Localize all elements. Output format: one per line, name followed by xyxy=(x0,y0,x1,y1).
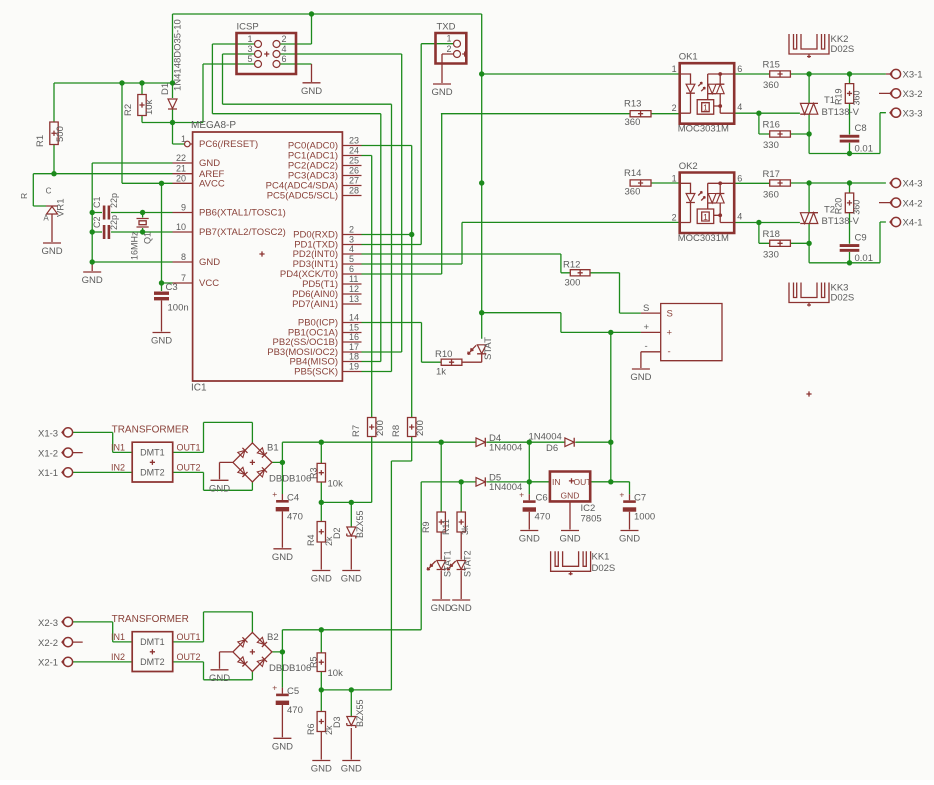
svg-text:11: 11 xyxy=(349,274,358,284)
svg-text:IN1: IN1 xyxy=(111,442,125,452)
svg-text:330: 330 xyxy=(763,249,779,260)
svg-text:C7: C7 xyxy=(634,493,646,504)
svg-text:1: 1 xyxy=(703,103,708,113)
svg-text:2: 2 xyxy=(282,34,287,44)
svg-text:ICSP: ICSP xyxy=(237,22,259,33)
svg-text:C3: C3 xyxy=(166,282,178,293)
svg-text:+: + xyxy=(644,322,650,333)
svg-text:PC6(/RESET): PC6(/RESET) xyxy=(199,139,258,150)
svg-text:12: 12 xyxy=(349,284,359,294)
svg-text:R: R xyxy=(19,193,29,199)
svg-text:+: + xyxy=(519,489,524,499)
svg-text:8: 8 xyxy=(181,252,186,262)
svg-text:1: 1 xyxy=(446,34,451,44)
svg-text:TRANSFORMER: TRANSFORMER xyxy=(112,614,189,625)
svg-text:IC2: IC2 xyxy=(581,503,596,514)
svg-text:17: 17 xyxy=(349,342,359,352)
svg-text:10k: 10k xyxy=(328,479,344,490)
svg-text:GND: GND xyxy=(341,574,362,585)
svg-text:R5: R5 xyxy=(309,656,319,668)
svg-text:GND: GND xyxy=(301,86,322,97)
svg-text:DMT2: DMT2 xyxy=(140,657,165,667)
svg-text:10: 10 xyxy=(176,222,186,232)
svg-text:STAT: STAT xyxy=(483,337,494,360)
svg-text:1N4004: 1N4004 xyxy=(489,482,522,493)
svg-text:C1: C1 xyxy=(92,196,102,208)
svg-text:R3: R3 xyxy=(309,467,319,479)
svg-text:100n: 100n xyxy=(168,303,189,314)
svg-text:PB6(XTAL1/TOSC1): PB6(XTAL1/TOSC1) xyxy=(199,208,286,219)
svg-text:7: 7 xyxy=(181,273,186,283)
svg-text:BT138-V: BT138-V xyxy=(822,216,860,227)
svg-text:R1: R1 xyxy=(35,135,46,147)
svg-text:1: 1 xyxy=(672,64,677,74)
svg-text:GND: GND xyxy=(559,534,580,545)
svg-text:R15: R15 xyxy=(763,60,780,71)
svg-text:C: C xyxy=(46,187,52,196)
svg-text:360: 360 xyxy=(625,187,641,198)
svg-text:16: 16 xyxy=(349,332,359,342)
svg-text:OUT: OUT xyxy=(574,477,592,487)
svg-text:24: 24 xyxy=(349,146,359,156)
svg-text:GND: GND xyxy=(431,603,452,614)
svg-text:Q1: Q1 xyxy=(143,232,153,244)
svg-text:360: 360 xyxy=(852,200,862,215)
svg-text:1k: 1k xyxy=(436,367,446,378)
svg-text:GND: GND xyxy=(199,257,220,268)
svg-text:2: 2 xyxy=(349,225,354,235)
svg-text:R2: R2 xyxy=(123,104,134,116)
svg-text:IN1: IN1 xyxy=(111,632,125,642)
svg-text:6: 6 xyxy=(737,173,742,183)
svg-text:2: 2 xyxy=(446,44,451,54)
svg-text:+: + xyxy=(619,489,624,499)
svg-text:C9: C9 xyxy=(855,232,867,243)
svg-text:X2-1: X2-1 xyxy=(38,658,58,669)
svg-text:500: 500 xyxy=(55,126,66,142)
svg-text:16MHz: 16MHz xyxy=(130,231,140,260)
svg-text:IN2: IN2 xyxy=(111,652,125,662)
svg-text:18: 18 xyxy=(349,352,359,362)
svg-text:R18: R18 xyxy=(763,229,780,240)
svg-text:1: 1 xyxy=(181,134,186,144)
svg-text:GND: GND xyxy=(431,87,452,98)
svg-text:+: + xyxy=(272,489,277,499)
svg-text:200: 200 xyxy=(375,420,386,436)
svg-text:D1: D1 xyxy=(160,83,171,95)
svg-text:470: 470 xyxy=(287,512,303,523)
svg-text:R9: R9 xyxy=(421,521,431,533)
svg-text:6: 6 xyxy=(282,54,287,64)
svg-text:GND: GND xyxy=(341,764,362,775)
svg-text:D02S: D02S xyxy=(831,293,855,304)
svg-text:DMT1: DMT1 xyxy=(140,637,165,647)
svg-text:GND: GND xyxy=(151,336,172,347)
svg-text:VCC: VCC xyxy=(199,278,219,289)
svg-text:1: 1 xyxy=(703,212,708,222)
svg-text:4: 4 xyxy=(737,212,742,222)
svg-text:X1-1: X1-1 xyxy=(38,468,58,479)
svg-text:X1-3: X1-3 xyxy=(38,428,58,439)
svg-text:360: 360 xyxy=(852,90,862,105)
svg-text:0.01: 0.01 xyxy=(855,253,874,264)
svg-text:T1: T1 xyxy=(824,95,835,106)
svg-text:OUT2: OUT2 xyxy=(177,652,201,662)
svg-text:D6: D6 xyxy=(546,443,558,454)
svg-text:22p: 22p xyxy=(109,193,119,208)
svg-text:MOC3031M: MOC3031M xyxy=(678,233,729,244)
svg-text:360: 360 xyxy=(763,80,779,91)
svg-text:10k: 10k xyxy=(328,668,344,679)
svg-text:X4-1: X4-1 xyxy=(903,218,923,229)
svg-text:R11: R11 xyxy=(441,519,451,535)
svg-text:KK1: KK1 xyxy=(592,552,610,563)
svg-text:IN: IN xyxy=(552,477,561,487)
svg-text:22p: 22p xyxy=(109,215,119,230)
svg-text:GND: GND xyxy=(199,158,220,169)
svg-text:GND: GND xyxy=(630,372,651,383)
svg-text:23: 23 xyxy=(349,136,359,146)
svg-text:1N4148DO35-10: 1N4148DO35-10 xyxy=(173,19,184,91)
svg-text:14: 14 xyxy=(349,313,359,323)
svg-text:C2: C2 xyxy=(92,216,102,228)
svg-text:R10: R10 xyxy=(435,349,452,360)
svg-text:C6: C6 xyxy=(536,493,548,504)
svg-text:A: A xyxy=(43,214,49,223)
svg-text:GND: GND xyxy=(519,534,540,545)
svg-text:MOC3031M: MOC3031M xyxy=(678,124,729,135)
svg-text:26: 26 xyxy=(349,166,359,176)
svg-text:IN2: IN2 xyxy=(111,462,125,472)
svg-text:3: 3 xyxy=(349,235,354,245)
svg-text:BZX55: BZX55 xyxy=(355,510,365,538)
svg-text:GND: GND xyxy=(209,483,230,494)
svg-text:3k: 3k xyxy=(460,525,470,535)
svg-text:28: 28 xyxy=(349,186,359,196)
svg-text:+: + xyxy=(667,328,673,339)
svg-text:GND: GND xyxy=(82,275,103,286)
svg-text:D02S: D02S xyxy=(592,563,616,574)
svg-text:BT138-V: BT138-V xyxy=(822,107,860,118)
svg-text:GND: GND xyxy=(311,574,332,585)
svg-text:GND: GND xyxy=(561,491,580,501)
svg-text:13: 13 xyxy=(349,294,359,304)
svg-text:R13: R13 xyxy=(624,99,641,110)
svg-text:X4-2: X4-2 xyxy=(903,198,923,209)
svg-text:X3-3: X3-3 xyxy=(903,108,923,119)
svg-text:-: - xyxy=(668,347,671,358)
svg-text:5: 5 xyxy=(349,254,354,264)
svg-text:GND: GND xyxy=(451,603,472,614)
svg-text:S: S xyxy=(643,303,649,314)
svg-text:GND: GND xyxy=(41,246,62,257)
svg-text:470: 470 xyxy=(287,705,303,716)
svg-text:R16: R16 xyxy=(763,120,780,131)
svg-text:AVCC: AVCC xyxy=(199,179,225,190)
svg-text:B2: B2 xyxy=(267,632,279,643)
svg-text:6: 6 xyxy=(737,64,742,74)
svg-text:TXD: TXD xyxy=(437,22,456,33)
svg-text:-: - xyxy=(645,341,648,352)
svg-text:22: 22 xyxy=(176,153,186,163)
svg-text:200: 200 xyxy=(415,420,426,436)
svg-text:6: 6 xyxy=(349,264,354,274)
svg-text:GND: GND xyxy=(272,741,293,752)
svg-text:R7: R7 xyxy=(351,425,362,437)
svg-text:5: 5 xyxy=(247,54,252,64)
svg-text:21: 21 xyxy=(176,164,186,174)
svg-text:2: 2 xyxy=(672,103,677,113)
svg-text:19: 19 xyxy=(349,362,359,372)
svg-text:R4: R4 xyxy=(306,534,316,546)
svg-text:1: 1 xyxy=(247,34,252,44)
svg-text:B1: B1 xyxy=(267,443,279,454)
svg-text:D2: D2 xyxy=(332,527,342,539)
svg-text:T2: T2 xyxy=(824,204,835,215)
svg-text:OK1: OK1 xyxy=(679,52,698,63)
svg-text:3: 3 xyxy=(247,44,252,54)
svg-text:X2-2: X2-2 xyxy=(38,638,58,649)
svg-text:GND: GND xyxy=(272,552,293,563)
svg-text:R8: R8 xyxy=(391,425,402,437)
svg-text:OK2: OK2 xyxy=(679,161,698,172)
svg-text:9: 9 xyxy=(181,203,186,213)
svg-text:1N4004: 1N4004 xyxy=(489,443,522,454)
svg-text:OUT2: OUT2 xyxy=(177,462,201,472)
svg-text:360: 360 xyxy=(625,117,641,128)
svg-text:GND: GND xyxy=(619,534,640,545)
svg-text:1: 1 xyxy=(672,173,677,183)
svg-text:0.01: 0.01 xyxy=(855,144,874,155)
svg-text:330: 330 xyxy=(763,140,779,151)
svg-text:X3-1: X3-1 xyxy=(903,70,923,81)
svg-text:470: 470 xyxy=(535,512,551,523)
svg-text:4: 4 xyxy=(737,102,742,112)
svg-text:X2-3: X2-3 xyxy=(38,618,58,629)
svg-text:4: 4 xyxy=(349,244,354,254)
svg-text:25: 25 xyxy=(349,156,359,166)
svg-text:D3: D3 xyxy=(332,716,342,728)
svg-text:R14: R14 xyxy=(624,168,641,179)
svg-text:300: 300 xyxy=(565,278,581,289)
svg-text:1N4004: 1N4004 xyxy=(529,432,562,443)
svg-text:360: 360 xyxy=(763,189,779,200)
svg-text:7805: 7805 xyxy=(581,514,602,525)
svg-text:DBDB106: DBDB106 xyxy=(269,663,311,674)
svg-text:R17: R17 xyxy=(763,169,780,180)
svg-text:X4-3: X4-3 xyxy=(903,179,923,190)
svg-text:PB5(SCK): PB5(SCK) xyxy=(294,367,338,378)
svg-text:15: 15 xyxy=(349,323,359,333)
svg-text:C4: C4 xyxy=(287,493,299,504)
svg-text:STAT1: STAT1 xyxy=(443,550,453,577)
svg-text:4: 4 xyxy=(282,44,287,54)
svg-text:GND: GND xyxy=(311,764,332,775)
svg-text:VR1: VR1 xyxy=(56,199,67,217)
svg-text:OUT1: OUT1 xyxy=(177,442,201,452)
svg-text:R6: R6 xyxy=(306,723,316,735)
svg-text:10k: 10k xyxy=(144,99,155,115)
svg-text:+: + xyxy=(272,683,277,693)
svg-text:PD7(AIN1): PD7(AIN1) xyxy=(292,299,338,310)
svg-text:X3-2: X3-2 xyxy=(903,89,923,100)
svg-text:TRANSFORMER: TRANSFORMER xyxy=(112,425,189,436)
svg-text:PB7(XTAL2/TOSC2): PB7(XTAL2/TOSC2) xyxy=(199,227,286,238)
svg-text:1000: 1000 xyxy=(634,512,655,523)
svg-text:DMT1: DMT1 xyxy=(140,447,165,457)
svg-text:C5: C5 xyxy=(287,686,299,697)
svg-text:R12: R12 xyxy=(563,260,580,271)
svg-text:27: 27 xyxy=(349,176,359,186)
svg-text:IC1: IC1 xyxy=(191,383,207,394)
svg-text:MEGA8-P: MEGA8-P xyxy=(191,120,236,131)
svg-text:DBDB106: DBDB106 xyxy=(269,474,311,485)
svg-text:2: 2 xyxy=(672,213,677,223)
svg-text:X1-2: X1-2 xyxy=(38,448,58,459)
svg-text:D02S: D02S xyxy=(831,44,855,55)
svg-text:GND: GND xyxy=(209,673,230,684)
svg-text:S: S xyxy=(667,308,673,319)
svg-text:BZX55: BZX55 xyxy=(355,699,365,727)
svg-text:C8: C8 xyxy=(855,123,867,134)
svg-text:STAT2: STAT2 xyxy=(463,550,473,577)
svg-text:20: 20 xyxy=(176,173,186,183)
svg-text:DMT2: DMT2 xyxy=(140,468,165,478)
svg-text:PC5(ADC5/SCL): PC5(ADC5/SCL) xyxy=(267,191,338,202)
svg-text:OUT1: OUT1 xyxy=(177,632,201,642)
